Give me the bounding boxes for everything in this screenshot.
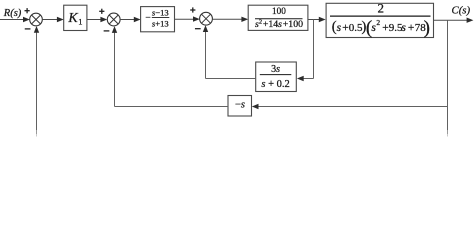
wire S3 to block G2 — [212, 17, 248, 22]
block G1 -(s-13)/(s+13) — [141, 7, 175, 32]
summing junction S1 — [30, 13, 43, 26]
wire G2 to block G3 with takeoff node — [308, 17, 326, 22]
wire K1 to summing junction S2 — [87, 17, 107, 22]
svg-text:2: 2 — [377, 1, 384, 16]
summing junction S2 — [107, 13, 120, 26]
svg-text:1: 1 — [78, 17, 82, 27]
sign − at S2 — [104, 30, 110, 31]
svg-text:C(s): C(s) — [452, 5, 471, 17]
block G3 2/((s+0.5)(s^2+9.5s+78)) — [326, 1, 433, 39]
wire output takeoff down to H2 — [252, 20, 448, 109]
block K1 — [64, 5, 87, 30]
wire H1 to summing junction S3 — [203, 25, 256, 78]
summing junction S3 — [200, 12, 213, 25]
svg-text:+: + — [408, 22, 415, 34]
svg-text:): ) — [424, 17, 430, 38]
svg-text:−s: −s — [235, 100, 245, 111]
svg-text:100: 100 — [272, 6, 286, 16]
sign + at S1 — [25, 8, 30, 13]
wire S1 to K1 — [42, 17, 63, 22]
svg-text:3s: 3s — [271, 64, 280, 75]
svg-text:s + 0.2: s + 0.2 — [261, 79, 289, 90]
wire G1 to summing junction S3 — [175, 16, 200, 21]
svg-text:K: K — [67, 11, 78, 26]
wire outer loop right vertical (fades at bottom) — [447, 107, 449, 137]
svg-text:s−13: s−13 — [152, 7, 169, 17]
svg-text:s2+14s+100: s2+14s+100 — [255, 19, 303, 30]
block H1 3s/(s+0.2) — [256, 62, 297, 92]
block G2 100/(s^2+14s+100) — [248, 5, 308, 30]
svg-text:−: − — [145, 14, 150, 24]
svg-text:R(s): R(s) — [3, 8, 22, 19]
svg-text:s: s — [337, 22, 342, 34]
wire inner-loop takeoff down to H1 — [297, 20, 314, 82]
sign − at S3 — [195, 28, 201, 29]
block H2 −s — [228, 96, 252, 117]
wire S2 to block G1 — [120, 17, 141, 22]
sign − at S1 — [25, 28, 31, 29]
wire input to summing junction S1 — [0, 17, 30, 22]
sign + at S3 — [190, 7, 195, 12]
svg-text:s: s — [401, 22, 406, 34]
svg-text:2: 2 — [376, 18, 380, 27]
sign + at S2 — [99, 9, 104, 14]
svg-text:s+13: s+13 — [152, 18, 169, 28]
wire G3 to output C(s) — [434, 18, 474, 23]
wire H2 to summing junction S2 — [112, 26, 228, 106]
wire outer loop left vertical to summing junction S1 (fades at bottom) — [34, 26, 39, 137]
